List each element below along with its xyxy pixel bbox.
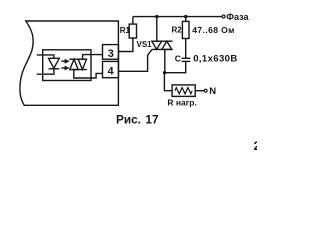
device box (partial, torn left edge) xyxy=(20,21,119,105)
svg-text:4: 4 xyxy=(108,66,115,78)
opto triac top rail xyxy=(69,58,86,60)
svg-text:R нагр.: R нагр. xyxy=(167,98,196,108)
junction dot R2 top xyxy=(184,15,187,18)
wire: VS1 gate to pin 4 xyxy=(118,49,152,71)
svg-text:R1: R1 xyxy=(120,26,131,35)
LED cathode bar xyxy=(49,68,60,70)
triac VS1 top rail xyxy=(152,40,173,42)
wire: C bottom to junction xyxy=(165,61,186,72)
wire: R2 to C xyxy=(185,39,187,59)
resistor R2 xyxy=(182,21,189,38)
svg-text:2: 2 xyxy=(254,141,257,153)
svg-text:R2: R2 xyxy=(172,26,183,35)
triac VS1 right triangle xyxy=(162,41,172,49)
opto triac right triangle xyxy=(78,59,86,69)
pin box 3 xyxy=(103,45,119,60)
svg-text:C: C xyxy=(175,53,181,63)
opto triac bottom rail xyxy=(69,69,86,71)
svg-text:Рис. 17: Рис. 17 xyxy=(116,112,159,126)
wire: VS1 anode xyxy=(156,17,158,42)
svg-text:47..68 Ом: 47..68 Ом xyxy=(192,25,235,35)
wire: opto triac to pin 3 xyxy=(83,55,103,60)
optocoupler arrow 1 xyxy=(61,60,66,62)
wire: opto triac to pin 4 xyxy=(74,70,103,78)
wire: load to N terminal xyxy=(195,90,204,92)
svg-text:Фаза: Фаза xyxy=(226,12,249,22)
LED triangle xyxy=(49,58,60,68)
load resistor zigzag xyxy=(175,88,192,94)
wire: LED anode stub xyxy=(37,55,54,58)
wire: R2 top lead xyxy=(185,17,187,22)
triac VS1 left triangle xyxy=(152,41,162,49)
wire: LED cathode stub xyxy=(37,69,54,74)
load resistor R нагр. box xyxy=(172,85,195,97)
wire: junction down to load xyxy=(164,73,172,91)
svg-text:VS1: VS1 xyxy=(137,40,153,49)
wire: top phase line xyxy=(133,16,222,18)
svg-text:3: 3 xyxy=(108,48,114,60)
pin box 4 xyxy=(103,61,119,77)
optocoupler box xyxy=(43,50,91,81)
triac VS1 bottom rail xyxy=(152,48,173,50)
svg-text:0,1x630В: 0,1x630В xyxy=(193,54,237,65)
capacitor C top plate xyxy=(182,57,191,59)
terminal circle (N) xyxy=(204,89,207,92)
capacitor C bottom plate xyxy=(182,60,191,62)
svg-text:N: N xyxy=(209,86,216,97)
terminal circle (phase) xyxy=(222,15,225,18)
optocoupler arrow 2 xyxy=(61,67,66,69)
wire: pin 3 to R1 xyxy=(118,38,132,52)
opto triac left triangle xyxy=(70,59,78,69)
junction dot bottom xyxy=(163,71,166,74)
wire: R1 to phase line xyxy=(132,17,134,25)
wire: VS1 cathode down xyxy=(164,49,166,72)
resistor R1 xyxy=(129,24,136,38)
junction dot VS1 top xyxy=(155,15,158,18)
